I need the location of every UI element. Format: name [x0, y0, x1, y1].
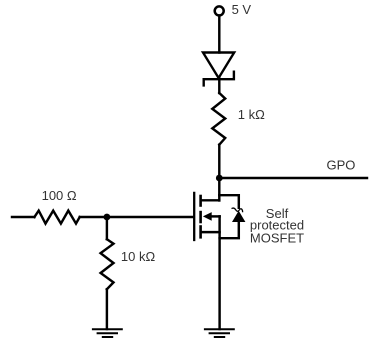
svg-text:MOSFET: MOSFET: [250, 230, 304, 245]
mosfet Q1 gate plate: [193, 193, 195, 240]
node B junction dot: [104, 214, 111, 221]
mosfet drain rail: [202, 199, 220, 201]
wire GPO: [219, 177, 367, 179]
wire input: [12, 216, 34, 218]
mosfet body rail with arrow: [211, 215, 220, 217]
wire: [106, 217, 108, 239]
resistor R1 1k: [212, 93, 225, 145]
wire: [106, 289, 108, 329]
mosfet source rail: [202, 231, 220, 233]
svg-text:5 V: 5 V: [232, 2, 252, 17]
svg-text:1 kΩ: 1 kΩ: [238, 107, 265, 122]
mosfet body arrow: [203, 212, 212, 221]
wire to gate: [80, 216, 194, 218]
terminal 5V: [215, 6, 224, 15]
ground left: [93, 329, 122, 337]
body diode bottom stem: [220, 220, 239, 238]
wire: [218, 145, 220, 201]
body diode triangle: [232, 211, 245, 222]
node junction dot: [216, 175, 223, 182]
svg-text:GPO: GPO: [327, 158, 356, 173]
wire: [218, 16, 220, 53]
mosfet Q1 channel bars: [199, 196, 202, 237]
svg-text:100 Ω: 100 Ω: [42, 188, 77, 203]
ground right: [205, 329, 234, 337]
body diode top rail: [219, 195, 239, 208]
resistor R2 100 ohm: [34, 211, 79, 224]
resistor R3 10k: [101, 239, 114, 289]
body diode squiggle: [232, 208, 243, 212]
zener diode D1: [203, 53, 234, 86]
mosfet source stem wire: [218, 216, 220, 329]
svg-text:10 kΩ: 10 kΩ: [121, 249, 156, 264]
wire: [218, 78, 220, 93]
